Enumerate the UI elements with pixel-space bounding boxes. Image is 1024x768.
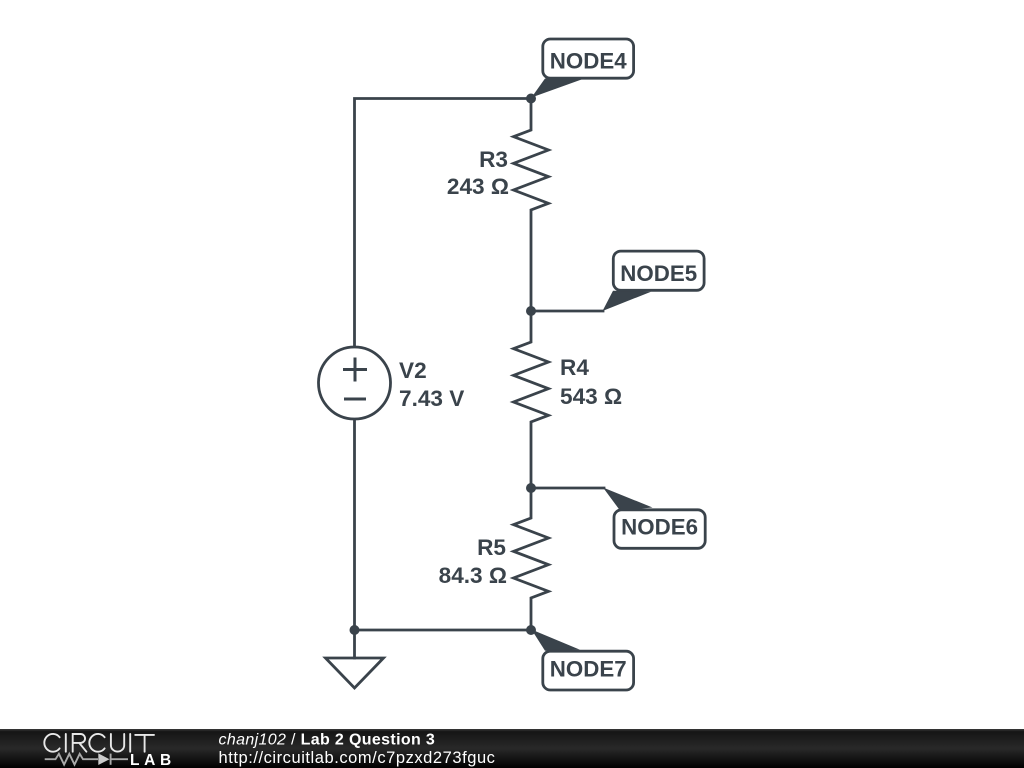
svg-text:7.43 V: 7.43 V [399,386,464,411]
svg-text:chanj102 / Lab 2 Question 3: chanj102 / Lab 2 Question 3 [219,732,436,749]
svg-text:LAB: LAB [130,752,176,768]
svg-text:84.3 Ω: 84.3 Ω [439,563,507,588]
svg-text:http://circuitlab.com/c7pzxd27: http://circuitlab.com/c7pzxd273fguc [219,749,496,767]
svg-text:543 Ω: 543 Ω [560,384,622,409]
svg-text:NODE4: NODE4 [550,48,627,73]
svg-text:243 Ω: 243 Ω [447,174,509,199]
svg-text:V2: V2 [399,358,427,383]
svg-text:R5: R5 [477,535,506,560]
svg-text:R3: R3 [479,147,508,172]
svg-text:NODE7: NODE7 [550,657,627,682]
svg-text:NODE6: NODE6 [621,515,698,540]
svg-text:NODE5: NODE5 [620,261,697,286]
svg-text:R4: R4 [560,355,589,380]
